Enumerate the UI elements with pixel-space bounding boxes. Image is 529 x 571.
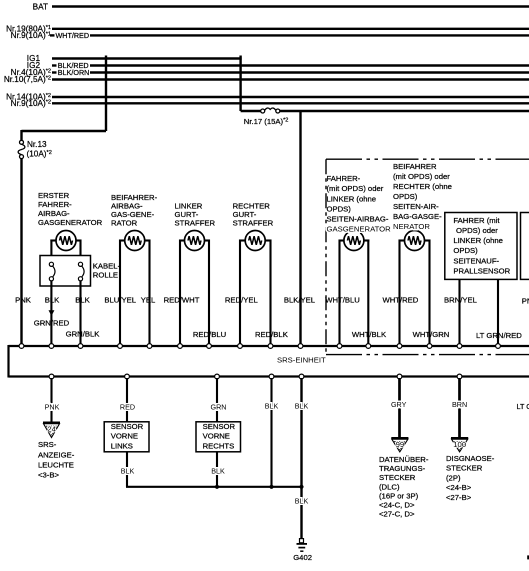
- SRS control unit box (SRS-EINHEIT): [9, 345, 529, 378]
- wire Nr.14(10A) feed: [52, 96, 529, 98]
- wire colour labels row 1: [15, 296, 529, 306]
- svg-text:LT GRN/RED: LT GRN/RED: [476, 331, 522, 340]
- svg-text:BLK/YEL: BLK/YEL: [284, 296, 316, 305]
- svg-text:100: 100: [453, 440, 466, 449]
- svg-text:GRN: GRN: [211, 402, 227, 411]
- svg-text:AIRBAG-: AIRBAG-: [38, 209, 70, 218]
- svg-text:(DLC): (DLC): [379, 482, 400, 491]
- wire IG1: [52, 57, 242, 59]
- svg-text:BRN/YEL: BRN/YEL: [444, 296, 478, 305]
- wire BRN/YEL (sensor to SRS): [458, 279, 460, 346]
- wire PNK (SRS to warning lamp): [50, 378, 52, 422]
- svg-text:VORNE: VORNE: [203, 432, 230, 441]
- svg-text:BLK/ORN: BLK/ORN: [58, 68, 90, 77]
- svg-text:<3-B>: <3-B>: [38, 470, 59, 479]
- connector 100 (diagnosis connector): [451, 438, 468, 452]
- svg-text:(16P or 3P): (16P or 3P): [379, 492, 419, 501]
- wire Nr.10(7,5A) feed: [52, 78, 529, 80]
- svg-text:Nr.13: Nr.13: [27, 140, 47, 149]
- SRS unit top terminals: [19, 344, 500, 349]
- wire LT GRN/RED (sensor to SRS): [497, 279, 499, 346]
- svg-text:24: 24: [47, 425, 56, 434]
- wire BLK (front right sensor ground): [216, 452, 218, 487]
- svg-text:(10A)*2: (10A)*2: [27, 149, 52, 158]
- svg-text:WHT/BLK: WHT/BLK: [352, 330, 387, 339]
- squib: driver airbag igniter: [50, 231, 81, 263]
- svg-text:OPDS) oder: OPDS) oder: [456, 226, 498, 235]
- SRS unit bottom terminals: [49, 374, 462, 379]
- label BEIFAHRER (mit OPDS) oder RECHTER (ohne OPDS) SEITEN-AIR-BAG-GASGENERATOR: [393, 162, 452, 231]
- wire drop to Nr.17 fuse: [239, 56, 241, 112]
- wire drop to Nr.13 fuse: [105, 56, 107, 132]
- svg-text:GRN/BLK: GRN/BLK: [66, 330, 101, 339]
- svg-text:VORNE: VORNE: [111, 432, 138, 441]
- label DATENUEBERTRAGUNGS-STECKER (DLC): [379, 455, 429, 519]
- svg-text:LINKS: LINKS: [111, 441, 133, 450]
- svg-text:TRAGUNGS-: TRAGUNGS-: [379, 464, 426, 473]
- wire PNK (from Nr.13 fuse to SRS): [20, 159, 22, 346]
- svg-text:DISGNAOSE-: DISGNAOSE-: [446, 454, 495, 463]
- wire ground bus: [126, 486, 303, 488]
- squib: passenger airbag igniter: [119, 231, 151, 347]
- svg-text:BLK: BLK: [121, 466, 135, 475]
- wire BLK / GRN/BLK (cable reel pin 2 to SRS): [79, 281, 81, 346]
- svg-text:SEITEN-AIR-: SEITEN-AIR-: [393, 202, 439, 211]
- svg-text:BAG-GASGE-: BAG-GASGE-: [393, 212, 442, 221]
- svg-text:WHT/RED: WHT/RED: [382, 296, 418, 305]
- svg-text:BLK: BLK: [45, 296, 60, 305]
- svg-text:PNK: PNK: [522, 297, 529, 306]
- wire GRY (SRS to DLC): [398, 378, 401, 438]
- svg-text:BLK: BLK: [295, 496, 309, 505]
- svg-text:SEITEN-AIRBAG-: SEITEN-AIRBAG-: [327, 214, 389, 223]
- cable reel left coil: [49, 262, 55, 281]
- cable reel box (KABELROLLE): [40, 256, 91, 287]
- wire BLK (front left sensor ground): [126, 452, 128, 487]
- dashed enclosure (side airbag system): [326, 159, 529, 354]
- label RECHTER GURTSTRAFFER: [233, 202, 274, 228]
- side impact sensor box 2 (cut off at edge): [521, 213, 529, 280]
- inline connector on GRN/RED wire: [49, 310, 55, 316]
- svg-text:DATENÜBER-: DATENÜBER-: [379, 455, 429, 464]
- svg-text:LEUCHTE: LEUCHTE: [38, 460, 74, 469]
- front left sensor box (SENSOR VORNE LINKS): [104, 422, 149, 452]
- svg-text:Nr.17 (15A)*2: Nr.17 (15A)*2: [244, 117, 289, 126]
- squib: right seat belt tensioner: [239, 231, 272, 347]
- svg-text:RED/YEL: RED/YEL: [225, 296, 259, 305]
- squib: right side airbag igniter: [399, 231, 431, 347]
- svg-text:PNK: PNK: [45, 402, 60, 411]
- label KABELROLLE: [93, 262, 121, 280]
- svg-text:FAHRER-: FAHRER-: [38, 200, 72, 209]
- svg-text:(2P): (2P): [446, 473, 461, 482]
- svg-text:FAHRER (mit: FAHRER (mit: [453, 216, 500, 225]
- svg-text:SENSOR: SENSOR: [111, 422, 144, 431]
- svg-text:STECKER: STECKER: [379, 473, 416, 482]
- svg-text:RECHTS: RECHTS: [203, 441, 235, 450]
- svg-text:BLK: BLK: [295, 401, 309, 410]
- svg-text:GASGENERATOR: GASGENERATOR: [327, 224, 392, 233]
- svg-text:<24-B>: <24-B>: [446, 483, 472, 492]
- wire BLK (SRS ground 1): [270, 378, 272, 487]
- svg-text:YEL: YEL: [141, 296, 156, 305]
- svg-text:WHT/GRN: WHT/GRN: [413, 330, 450, 339]
- wire BLK/YEL (from Nr.17 fuse to SRS): [299, 111, 301, 346]
- svg-text:GRN/RED: GRN/RED: [34, 318, 70, 327]
- svg-text:BLK: BLK: [75, 296, 90, 305]
- svg-text:OPDS): OPDS): [393, 192, 418, 201]
- wire BAT bus: [52, 5, 529, 7]
- fuse Nr.13 (10A): [18, 140, 25, 158]
- svg-text:SENSOR: SENSOR: [203, 422, 236, 431]
- svg-text:RECHTER (ohne: RECHTER (ohne: [393, 182, 452, 191]
- svg-text:RED/BLU: RED/BLU: [193, 330, 226, 339]
- svg-text:WHT/RED: WHT/RED: [56, 31, 90, 40]
- svg-text:STRAFFER: STRAFFER: [175, 219, 216, 228]
- artifact: cut-off character at bottom right edge: [527, 555, 529, 559]
- wire BLK / GRN/RED (cable reel pin 1 to SRS): [50, 281, 52, 346]
- svg-text:BLK: BLK: [211, 466, 225, 475]
- svg-text:PRALLSENSOR: PRALLSENSOR: [453, 266, 510, 275]
- svg-text:OPDS): OPDS): [453, 246, 478, 255]
- svg-text:99: 99: [396, 440, 405, 449]
- label SRS-ANZEIGE-LEUCHTE <3-B>: [38, 440, 75, 479]
- wire WHT/RED: [50, 34, 55, 36]
- wire BLK/RED (IG2): [52, 64, 57, 66]
- squib: left seat belt tensioner: [179, 231, 210, 347]
- svg-text:SRS-: SRS-: [38, 440, 57, 449]
- svg-text:STECKER: STECKER: [446, 464, 483, 473]
- svg-text:<27-C, D>: <27-C, D>: [379, 510, 415, 519]
- svg-text:BLK: BLK: [265, 401, 279, 410]
- svg-text:LINKER (ohne: LINKER (ohne: [327, 194, 377, 203]
- wire BLK (SRS ground 2): [300, 378, 302, 539]
- cable reel right coil: [78, 262, 84, 281]
- connector 99 (data link connector): [391, 438, 408, 452]
- svg-text:(mit OPDS) oder: (mit OPDS) oder: [393, 172, 450, 181]
- fuse Nr.17 (15A): [261, 108, 280, 113]
- ground G402: [297, 539, 308, 552]
- wire Nr.17 fuse output: [280, 110, 529, 112]
- svg-text:RED: RED: [120, 402, 135, 411]
- wire GRN (SRS to front sensor right): [216, 378, 218, 422]
- svg-text:Nr.10(7,5A)*2: Nr.10(7,5A)*2: [4, 75, 51, 84]
- svg-text:NERATOR: NERATOR: [393, 222, 430, 231]
- wire Nr.19(80A) feed: [52, 28, 529, 30]
- side impact sensor box U1: [445, 213, 517, 280]
- label FAHRER-(mit OPDS) oder LINKER (ohne OPDS) SEITEN-AIRBAG-GASGENERATOR: [327, 174, 392, 233]
- svg-text:KABEL-: KABEL-: [93, 262, 121, 271]
- svg-text:BLU/YEL: BLU/YEL: [104, 296, 136, 305]
- svg-text:ERSTER: ERSTER: [38, 191, 70, 200]
- wire RED (SRS to front sensor left): [126, 378, 128, 422]
- svg-text:OPDS): OPDS): [327, 204, 352, 213]
- svg-text:G402: G402: [293, 553, 312, 562]
- wire BRN (SRS to diagnosis connector): [458, 378, 461, 438]
- svg-text:RED/BLK: RED/BLK: [255, 330, 289, 339]
- wire colour labels row 2: [34, 318, 522, 340]
- svg-text:BEIFAHRER: BEIFAHRER: [393, 162, 437, 171]
- label BEIFAHRER-AIRBAG-GAS-GENERATOR: [111, 193, 158, 228]
- label LINKER GURTSTRAFFER: [175, 202, 216, 228]
- node junction: [269, 485, 273, 489]
- svg-text:<27-B>: <27-B>: [446, 493, 472, 502]
- squib: left side airbag igniter: [339, 231, 370, 347]
- svg-text:Nr.9(10A)*2: Nr.9(10A)*2: [11, 99, 51, 108]
- svg-text:ROLLE: ROLLE: [93, 270, 118, 279]
- svg-text:FAHRER-: FAHRER-: [327, 174, 361, 183]
- node junction: [299, 485, 303, 489]
- front right sensor box (SENSOR VORNE RECHTS): [196, 422, 241, 452]
- svg-text:Nr.9(10A)*1: Nr.9(10A)*1: [11, 31, 51, 40]
- svg-text:RATOR: RATOR: [111, 219, 138, 228]
- connector 24 (to SRS warning lamp): [43, 423, 60, 438]
- label FAHRER (mit OPDS) oder LINKER (ohne OPDS) SEITENAUFPRALLSENSOR: [453, 216, 510, 275]
- svg-text:GASGENERATOR: GASGENERATOR: [38, 218, 103, 227]
- svg-text:(mit OPDS) oder: (mit OPDS) oder: [327, 184, 384, 193]
- svg-text:LINKER (ohne: LINKER (ohne: [453, 236, 503, 245]
- label DISGNAOSE-STECKER (2P): [446, 454, 495, 502]
- svg-text:ANZEIGE-: ANZEIGE-: [38, 450, 75, 459]
- label ERSTER FAHRER-AIRBAG-GASGENERATOR: [38, 191, 103, 227]
- svg-text:SRS-EINHEIT: SRS-EINHEIT: [277, 355, 326, 364]
- svg-text:WHT/BLU: WHT/BLU: [325, 296, 360, 305]
- wire BLK/ORN (Nr.4): [52, 71, 57, 73]
- svg-text:SEITENAUF-: SEITENAUF-: [453, 256, 499, 265]
- svg-text:BAT: BAT: [33, 2, 48, 11]
- wire Nr.9(10A) feed: [52, 102, 529, 104]
- svg-text:<24-C, D>: <24-C, D>: [379, 501, 415, 510]
- svg-text:LT GRN/RED: LT GRN/RED: [517, 402, 529, 411]
- svg-text:GRY: GRY: [391, 400, 407, 409]
- svg-text:STRAFFER: STRAFFER: [233, 219, 274, 228]
- svg-text:BRN: BRN: [452, 400, 467, 409]
- svg-text:RED/WHT: RED/WHT: [164, 296, 200, 305]
- node junction: [215, 485, 219, 489]
- svg-text:PNK: PNK: [15, 296, 32, 305]
